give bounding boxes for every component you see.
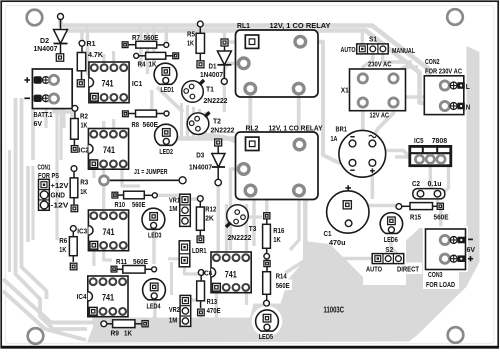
diode D2 <box>34 14 68 62</box>
wire <box>166 136 244 140</box>
resistor R10 <box>112 191 157 209</box>
resistor R3 <box>70 166 88 212</box>
wire <box>112 51 115 62</box>
wire <box>350 204 396 207</box>
svg-text:560E: 560E <box>143 120 159 129</box>
wire <box>31 166 34 240</box>
resistor R7 <box>122 33 169 48</box>
svg-text:T3: T3 <box>249 224 256 233</box>
resistor R15 <box>396 203 449 222</box>
svg-text:1K: 1K <box>187 38 194 47</box>
wire <box>430 164 436 192</box>
svg-text:C2: C2 <box>412 179 420 188</box>
svg-text:R3: R3 <box>80 177 88 186</box>
LED LED5 <box>256 310 279 341</box>
svg-text:6V: 6V <box>34 119 43 128</box>
jumper J1 <box>100 167 187 185</box>
svg-text:470E: 470E <box>207 306 221 315</box>
wire <box>215 293 218 318</box>
wire <box>62 109 65 129</box>
diode D1 <box>200 39 231 84</box>
svg-text:MANUAL: MANUAL <box>392 46 415 55</box>
resistor R8 <box>123 110 170 129</box>
connector CON3 <box>426 229 476 289</box>
preset VR1 <box>169 194 190 226</box>
wire <box>395 155 410 158</box>
svg-text:AUTO: AUTO <box>366 265 382 274</box>
svg-text:IC4: IC4 <box>77 292 88 301</box>
wire <box>436 198 439 203</box>
LED LED3 <box>142 208 165 239</box>
wire <box>92 170 95 179</box>
svg-text:741: 741 <box>103 144 115 155</box>
wire <box>216 186 219 251</box>
wire <box>16 98 88 329</box>
svg-text:IC2: IC2 <box>79 146 89 155</box>
wire <box>102 121 105 128</box>
svg-text:12V, 1 CO RELAY: 12V, 1 CO RELAY <box>270 21 331 30</box>
svg-text:T1: T1 <box>206 85 215 94</box>
wire <box>225 204 228 251</box>
wire <box>228 40 245 43</box>
svg-text:VR2: VR2 <box>169 305 180 314</box>
wire <box>245 293 248 305</box>
wire <box>244 215 263 218</box>
transformer X1 <box>341 60 406 120</box>
resistor R4 <box>134 52 179 68</box>
svg-text:LED1: LED1 <box>161 85 175 94</box>
svg-text:0.1u: 0.1u <box>428 179 442 188</box>
LED LED1 <box>154 63 177 94</box>
resistor R9 <box>101 320 148 338</box>
svg-text:CON2: CON2 <box>425 57 440 66</box>
switch S2 <box>366 245 419 273</box>
svg-text:2N2222: 2N2222 <box>228 233 252 242</box>
wire <box>204 112 207 138</box>
svg-text:IC1: IC1 <box>132 79 143 88</box>
svg-text:S1: S1 <box>369 35 378 44</box>
wire <box>152 229 155 264</box>
svg-text:1K: 1K <box>59 245 66 254</box>
svg-text:1M: 1M <box>169 204 178 213</box>
op-amp IC6 <box>202 252 251 293</box>
wire <box>54 104 72 117</box>
relay RL2 <box>236 124 323 200</box>
svg-text:1K: 1K <box>80 187 87 196</box>
wire <box>122 170 140 187</box>
wire <box>442 162 449 194</box>
wire <box>231 169 240 250</box>
svg-text:LED4: LED4 <box>147 302 162 311</box>
resistor R11 <box>111 257 157 273</box>
svg-text:741: 741 <box>102 292 114 303</box>
wire <box>55 109 58 241</box>
ground pour <box>286 241 363 287</box>
svg-text:6V: 6V <box>467 245 476 254</box>
wire <box>102 170 105 210</box>
resistor R5 <box>187 21 205 68</box>
capacitor C2 <box>412 179 445 199</box>
svg-text:+12V: +12V <box>51 181 70 190</box>
wire <box>371 165 375 200</box>
svg-text:1M: 1M <box>169 315 178 324</box>
wire <box>59 109 62 161</box>
svg-text:R1: R1 <box>87 39 97 48</box>
svg-text:FOR LOAD: FOR LOAD <box>426 280 455 289</box>
resistor R16 <box>263 213 285 259</box>
svg-text:-12V: -12V <box>51 200 70 209</box>
wire <box>150 90 153 113</box>
svg-text:R15: R15 <box>410 213 422 222</box>
wire <box>189 197 198 200</box>
wire <box>305 42 349 163</box>
svg-text:CON3: CON3 <box>428 270 443 279</box>
svg-text:12V AC: 12V AC <box>370 111 390 120</box>
ground pour <box>461 46 480 288</box>
capacitor C1 <box>324 185 369 247</box>
wire <box>372 145 409 157</box>
svg-text:11003C: 11003C <box>324 305 345 314</box>
relay RL1 <box>236 21 331 97</box>
svg-text:S2: S2 <box>385 245 393 254</box>
battery BATT.1 <box>24 69 72 128</box>
svg-text:N: N <box>466 103 471 112</box>
wire <box>223 31 226 40</box>
wire <box>146 31 149 75</box>
svg-text:LED6: LED6 <box>384 235 398 244</box>
resistor R2 <box>71 105 88 152</box>
wire <box>44 109 47 129</box>
svg-text:741: 741 <box>225 269 237 280</box>
wire <box>94 312 100 324</box>
svg-text:R16: R16 <box>273 226 284 235</box>
wire <box>248 94 252 137</box>
wire (pad fill under IC5 pin 1) <box>412 153 427 166</box>
svg-text:2N2222: 2N2222 <box>204 96 228 105</box>
wire <box>66 31 441 107</box>
svg-text:R8: R8 <box>132 120 140 129</box>
bridge rectifier BR1 <box>331 124 386 177</box>
wire <box>297 94 301 139</box>
svg-text:R10: R10 <box>115 200 126 209</box>
wire <box>157 87 183 112</box>
wire <box>199 316 202 323</box>
wire <box>152 26 155 63</box>
svg-text:1N4007: 1N4007 <box>200 70 223 79</box>
wire <box>165 26 168 43</box>
svg-text:1N4007: 1N4007 <box>189 162 212 171</box>
wire <box>391 236 397 254</box>
svg-text:R7: R7 <box>132 33 140 42</box>
svg-text:AUTO: AUTO <box>341 45 356 54</box>
wire <box>200 135 250 184</box>
svg-text:R14: R14 <box>276 272 288 281</box>
wire <box>373 104 393 138</box>
wire <box>180 103 183 138</box>
resistor R12 <box>196 196 216 243</box>
svg-text:741: 741 <box>102 77 114 88</box>
wire <box>170 262 173 295</box>
connector CON1 <box>38 163 70 211</box>
wire <box>405 97 466 110</box>
LED LED2 <box>155 124 178 156</box>
svg-text:R6: R6 <box>59 236 67 245</box>
svg-text:DIRECT: DIRECT <box>397 265 419 274</box>
resistor R1 <box>77 39 103 87</box>
wire <box>88 26 93 75</box>
wire <box>112 119 115 128</box>
transistor T3 <box>226 205 256 242</box>
wire <box>186 105 189 138</box>
svg-text:T2: T2 <box>213 116 221 125</box>
svg-text:470u: 470u <box>329 238 346 247</box>
svg-text:R12: R12 <box>205 205 216 214</box>
svg-text:LDR1: LDR1 <box>192 246 207 255</box>
svg-text:2K: 2K <box>205 214 214 223</box>
wire <box>198 109 201 138</box>
connector CON2 <box>424 57 470 115</box>
pour white margins <box>252 226 468 336</box>
svg-text:BATT.1: BATT.1 <box>34 110 54 119</box>
ground pour <box>303 158 316 243</box>
wire <box>192 107 195 138</box>
svg-text:1K: 1K <box>149 60 157 69</box>
svg-text:R9: R9 <box>111 328 120 337</box>
mounting hole bottom-left <box>28 328 44 344</box>
mounting hole top-left <box>27 10 43 26</box>
svg-text:R13: R13 <box>207 297 218 306</box>
mounting hole top-right <box>447 9 463 25</box>
wire <box>361 31 364 45</box>
svg-text:230V AC: 230V AC <box>368 60 392 69</box>
svg-text:FOR 230V AC: FOR 230V AC <box>425 67 462 76</box>
svg-text:L: L <box>466 82 470 91</box>
LED LED6 <box>380 213 402 245</box>
svg-text:LED3: LED3 <box>148 231 162 240</box>
wire <box>394 67 419 76</box>
wire <box>149 299 155 323</box>
svg-text:1K: 1K <box>124 328 132 337</box>
wire <box>3 279 242 323</box>
svg-text:GND: GND <box>51 190 66 199</box>
wire <box>139 26 142 69</box>
svg-text:IC5: IC5 <box>414 136 424 145</box>
wire <box>285 259 372 274</box>
svg-text:R2: R2 <box>80 112 88 121</box>
switch S1 <box>341 35 416 56</box>
wire <box>3 291 86 340</box>
wire <box>168 257 179 260</box>
op-amp IC3 <box>77 210 128 251</box>
svg-text:IC3: IC3 <box>77 227 87 236</box>
svg-text:RL2: RL2 <box>246 124 259 133</box>
wire <box>22 98 47 299</box>
svg-text:C1: C1 <box>324 229 333 238</box>
svg-text:RL1: RL1 <box>237 21 251 30</box>
wire <box>355 104 363 142</box>
wire <box>80 31 83 44</box>
wire <box>92 251 95 267</box>
op-amp IC4 <box>77 276 128 317</box>
wire <box>363 52 373 76</box>
diode D3 <box>189 139 225 186</box>
svg-text:1K: 1K <box>273 235 281 244</box>
svg-text:BR1: BR1 <box>336 124 348 133</box>
svg-text:J1 = JUMPER: J1 = JUMPER <box>134 167 168 176</box>
wire <box>245 204 248 251</box>
svg-text:560E: 560E <box>132 200 146 209</box>
transistor T1 <box>182 80 228 105</box>
LED LED4 <box>143 279 166 311</box>
wire <box>223 84 226 112</box>
svg-text:12V, 1 CO RELAY: 12V, 1 CO RELAY <box>269 124 323 133</box>
svg-text:LED2: LED2 <box>159 147 173 156</box>
wire <box>252 198 255 246</box>
svg-text:2N2222: 2N2222 <box>211 125 235 134</box>
svg-text:FOR PS: FOR PS <box>38 171 59 180</box>
svg-text:560E: 560E <box>434 213 449 222</box>
transistor T2 <box>187 112 234 134</box>
svg-text:1K: 1K <box>81 120 88 129</box>
wire <box>102 54 105 62</box>
ground pour <box>87 228 480 343</box>
resistor R14 <box>263 260 290 306</box>
wire <box>224 63 239 78</box>
wire <box>61 18 442 86</box>
wire <box>26 166 30 242</box>
resistor R6 <box>59 226 77 270</box>
svg-text:560E: 560E <box>276 281 290 290</box>
svg-text:R5: R5 <box>187 29 196 38</box>
svg-text:741: 741 <box>103 226 115 237</box>
LDR LDR1 <box>179 241 207 267</box>
svg-text:560E: 560E <box>133 257 148 266</box>
wire <box>31 110 35 160</box>
svg-text:D3: D3 <box>196 151 204 160</box>
op-amp IC1 <box>89 62 143 103</box>
svg-text:7808: 7808 <box>432 136 448 145</box>
svg-text:LED5: LED5 <box>259 332 274 341</box>
wire <box>104 251 112 261</box>
svg-text:R4: R4 <box>138 60 147 69</box>
svg-text:X1: X1 <box>341 85 350 94</box>
svg-text:IC6: IC6 <box>202 269 212 278</box>
svg-text:1A: 1A <box>331 134 338 143</box>
wire <box>157 194 179 197</box>
wire <box>185 266 203 274</box>
wire <box>8 150 11 272</box>
resistor R13 <box>197 270 221 316</box>
mounting hole bottom-right <box>448 327 464 343</box>
wire <box>191 298 197 301</box>
regulator IC5 7808 <box>410 136 451 166</box>
svg-text:R11: R11 <box>116 257 128 266</box>
wire <box>441 210 445 234</box>
svg-text:1N4007: 1N4007 <box>34 44 58 53</box>
svg-text:560E: 560E <box>144 33 159 42</box>
wire <box>265 198 268 213</box>
wire <box>290 196 299 250</box>
svg-text:D1: D1 <box>209 61 218 70</box>
op-amp IC2 <box>79 129 129 170</box>
preset VR2 <box>169 295 191 326</box>
svg-text:4.7K: 4.7K <box>88 50 103 59</box>
wire <box>383 52 412 62</box>
board code 11003C <box>324 305 345 314</box>
